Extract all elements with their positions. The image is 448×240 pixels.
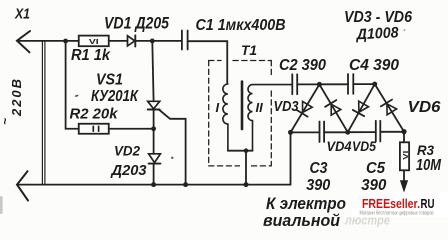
svg-text:390: 390: [361, 177, 386, 194]
svg-text:С4 390: С4 390: [349, 57, 399, 74]
svg-text:Магазин бесплатных цифровых то: Магазин бесплатных цифровых товаров: [360, 211, 434, 217]
node junction R1/R2 split: [63, 39, 68, 44]
wire T1 windings bottom return: [228, 151, 253, 185]
wire C5 to valley C: [380, 131, 404, 133]
node valley A: [288, 130, 293, 135]
VS1 gate wire: [159, 110, 186, 185]
svg-text:VD1 Д205: VD1 Д205: [104, 15, 170, 33]
node peak2: [372, 82, 377, 87]
svg-text:VI: VI: [89, 37, 99, 46]
svg-text:~: ~: [0, 118, 12, 125]
connector X1 top arrow: [17, 31, 30, 52]
wire bottom mains: [17, 132, 291, 184]
node valley C: [401, 129, 406, 134]
diode VD1: [128, 35, 136, 46]
resistor R2: [79, 124, 109, 134]
svg-text:С5: С5: [366, 160, 386, 177]
wire VD2 to bottom rail: [153, 164, 155, 185]
wire diagonal peak2 to valley C: [375, 84, 404, 132]
scan speck near Д1008: [404, 29, 406, 31]
svg-text:Д1008: Д1008: [354, 24, 399, 43]
wire diagonal valley B to peak2: [348, 84, 375, 132]
capacitor C5: [376, 121, 381, 142]
node peak1: [317, 82, 322, 87]
scan smudge left edge: [0, 196, 3, 214]
diode VD5: [353, 101, 369, 116]
node T1 return bottom: [244, 182, 249, 187]
label ~220В: [0, 79, 24, 125]
svg-text:К электро: К электро: [266, 195, 346, 213]
diode VD3: [297, 101, 313, 116]
svg-text:VI: VI: [403, 151, 410, 160]
svg-text:VD5: VD5: [352, 138, 376, 154]
svg-text:II: II: [256, 100, 264, 115]
capacitor C1: [182, 31, 188, 50]
wire valley B to C5: [348, 131, 376, 133]
mains double line: [42, 42, 45, 185]
wire R1 to VD1: [109, 40, 128, 42]
node VS1 cathode / R2 / VD2: [151, 126, 156, 131]
wire C4 to peak2: [353, 83, 374, 85]
wire valley A to C3: [291, 131, 320, 133]
resistor R3: [400, 142, 410, 170]
diode VD4: [325, 100, 341, 115]
diode VD2: [149, 154, 161, 164]
svg-text:220В: 220В: [9, 79, 24, 117]
node VS1 anode: [150, 39, 155, 44]
wire diagonal peak1 to valley A: [291, 84, 320, 132]
T1 winding I: [223, 84, 228, 151]
svg-text:FREEseller.: FREEseller.: [362, 197, 420, 211]
transformer T1 dashed box: [209, 61, 272, 166]
wire peak1 to C4: [319, 83, 348, 85]
capacitor C3: [320, 122, 325, 143]
wire valley C to R3: [403, 132, 405, 143]
wire R3 to output arrow: [403, 170, 405, 182]
svg-text:I: I: [216, 100, 220, 115]
wire VS1 cathode down: [153, 110, 155, 154]
capacitor C2: [292, 74, 297, 94]
scan speck right of VD2: [171, 157, 173, 159]
output arrow down: [400, 180, 408, 192]
node valley B: [345, 130, 350, 135]
svg-text:R1 1k: R1 1k: [71, 47, 111, 64]
FREEseller.RU watermark: [352, 192, 448, 217]
svg-text:390: 390: [306, 177, 330, 194]
node gate bottom: [183, 182, 188, 187]
resistor R1: [79, 36, 109, 47]
svg-text:R2 20k: R2 20k: [70, 106, 119, 122]
connector X1 bottom arrow: [17, 171, 28, 200]
svg-text:R3: R3: [417, 142, 434, 158]
wire C1 to transformer T1: [188, 41, 228, 84]
diode VD6: [381, 100, 397, 115]
T1 core: [241, 82, 244, 130]
node VD2 bottom: [151, 182, 156, 187]
svg-text:VD2: VD2: [114, 143, 140, 159]
wire VD1 to node: [135, 40, 181, 42]
wire R2 to node: [109, 128, 154, 130]
thyristor VS1: [148, 101, 160, 109]
svg-text:Д203: Д203: [110, 162, 148, 179]
wire diagonal peak1 to valley B: [319, 84, 347, 132]
capacitor C4: [348, 74, 353, 94]
wire C2 to peak1: [297, 83, 319, 85]
svg-text:RU: RU: [421, 197, 435, 211]
thyristor VS1 anode wire: [152, 41, 153, 101]
wire node down to R2: [66, 41, 79, 129]
node T1 return top: [244, 148, 249, 153]
svg-text:VD3: VD3: [274, 98, 300, 115]
T1 winding II: [248, 85, 292, 151]
scan speck near КУ201К: [75, 94, 79, 97]
svg-text:VS1: VS1: [96, 72, 123, 89]
svg-text:Х1: Х1: [14, 7, 30, 23]
svg-text:КУ201К: КУ201К: [91, 88, 139, 105]
svg-text:VD4: VD4: [327, 138, 352, 154]
svg-text:С1 1мкх400В: С1 1мкх400В: [196, 17, 286, 34]
svg-text:С2 390: С2 390: [279, 57, 326, 74]
svg-text:С3: С3: [310, 160, 328, 177]
svg-text:Т1: Т1: [241, 42, 257, 58]
svg-text:VD6: VD6: [408, 99, 441, 116]
wire C3 to valley B: [324, 131, 348, 133]
svg-text:VD3 - VD6: VD3 - VD6: [344, 9, 412, 26]
svg-text:виальной: виальной: [263, 212, 340, 230]
svg-text:10М: 10М: [416, 157, 442, 174]
wire top mains from X1 to node: [17, 40, 79, 42]
